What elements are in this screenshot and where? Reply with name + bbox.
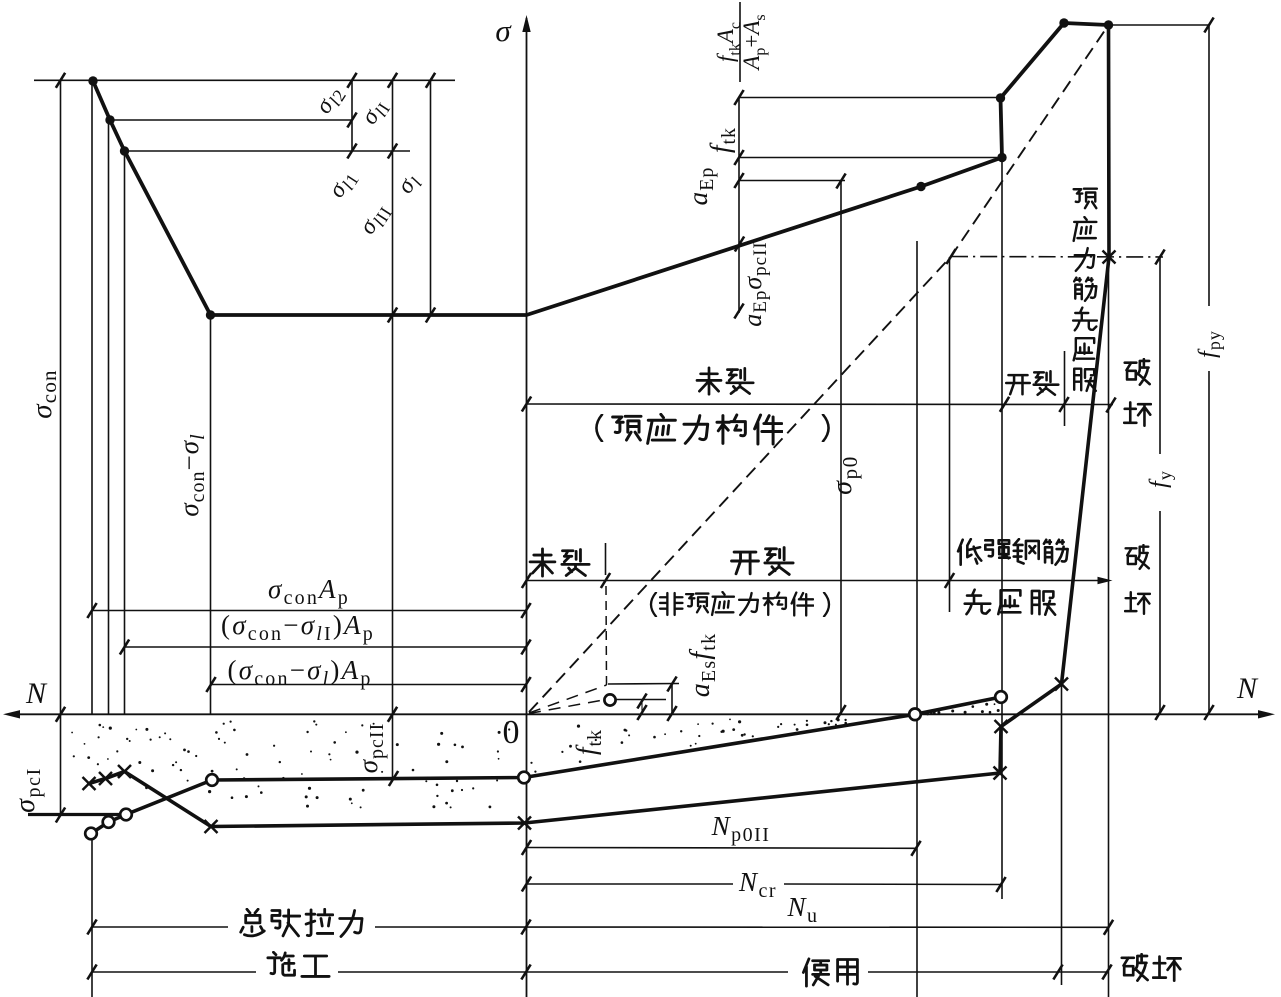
dimension row construction / service	[92, 971, 1108, 973]
svg-text:Ap+As: Ap+As	[739, 14, 768, 71]
svg-text:aEsftk: aEsftk	[685, 633, 719, 698]
svg-text:Np0II: Np0II	[711, 811, 771, 845]
uncracked/cracked boundary line non-prestressed row	[527, 577, 1113, 585]
sigma_lI label	[356, 94, 395, 131]
svg-text:aEpσpcII: aEpσpcII	[738, 241, 771, 327]
svg-text:0: 0	[503, 714, 520, 751]
svg-text:fy: fy	[1146, 470, 1176, 488]
svg-text:σlII: σlII	[354, 198, 396, 241]
ticks sigma_con axis crossing	[56, 707, 65, 823]
ticks dashdot	[946, 249, 1164, 265]
ticks y582 row	[522, 573, 954, 588]
level line after first loss	[110, 119, 352, 121]
svg-text:σpcII: σpcII	[353, 723, 387, 774]
sigma axis (vertical)	[522, 15, 530, 997]
curve concrete stress with circle markers	[91, 697, 1001, 834]
ticks a_Es dim	[667, 677, 676, 722]
drop line from point 4	[210, 315, 212, 714]
dimension row total tension / N_u	[92, 926, 1109, 928]
a_Es f_tk label	[685, 633, 719, 698]
top right connector line	[1109, 24, 1210, 26]
vertical line x1108 failure boundary	[1108, 25, 1110, 997]
dashed fan line upper	[529, 685, 607, 713]
ticks f_py ends	[1204, 18, 1213, 721]
label total tension force	[241, 909, 362, 936]
label kailie prestressed row	[1006, 371, 1058, 395]
sigma_p0 level line	[739, 180, 845, 182]
label (prestressed member)	[596, 414, 828, 444]
svg-text:σcon: σcon	[26, 369, 61, 418]
sigma_l label	[392, 168, 427, 200]
dimension row sigma_con Ap	[92, 610, 526, 612]
label low strength steel	[958, 539, 1068, 565]
label weilie prestressed row	[697, 368, 753, 394]
vertical line x917	[916, 241, 918, 997]
ticks N_cr row	[522, 877, 1006, 893]
x markers	[83, 251, 1116, 834]
ticks top loss dims	[56, 73, 435, 323]
label pohuai column prestressed	[1124, 359, 1151, 426]
uncracked/cracked boundary line prestressed row	[527, 403, 1114, 406]
circle markers	[85, 691, 1007, 839]
dimension row (sigma_con - sigma_l)Ap	[211, 684, 526, 686]
label yields first	[965, 590, 1055, 615]
svg-text:ftk: ftk	[571, 729, 605, 755]
label pohuai column non-prestressed	[1125, 545, 1150, 614]
svg-text:σl: σl	[392, 168, 427, 200]
f_tk jump label	[705, 127, 739, 153]
dashed vertical x608	[605, 586, 608, 685]
a_Ep label	[683, 167, 717, 206]
svg-text:ftk: ftk	[705, 127, 739, 153]
dimension row N_p0II	[527, 847, 917, 850]
sigma_pcI label	[10, 767, 44, 813]
circle marker construction point	[604, 694, 615, 705]
ticks y404 row	[522, 397, 1116, 413]
vertical line x1062	[1061, 684, 1063, 985]
ticks sigma_pcII dim	[388, 707, 398, 786]
svg-text:σcon−σl: σcon−σl	[174, 433, 208, 516]
dashed diagonal sigma_p0 line	[529, 25, 1109, 712]
a_Es f_tk dimension vertical	[671, 684, 673, 715]
curve steel stress with x markers	[89, 25, 1109, 827]
svg-text:N: N	[1236, 672, 1259, 705]
sigma_con label	[26, 369, 61, 418]
tick f_y end	[1155, 705, 1164, 720]
svg-text:aEp: aEp	[683, 167, 717, 206]
svg-text:σp0: σp0	[827, 455, 861, 495]
dimension line sigma_l2 vertical	[351, 80, 353, 151]
divider weilie/kailie row2	[605, 543, 607, 575]
drop line from point 1	[91, 81, 93, 714]
sigma_lII label	[354, 198, 396, 241]
vertical line x1002	[1001, 158, 1003, 900]
a_Ep sigma_pcII label	[738, 241, 771, 327]
top level f_tk Ac/(Ap+As)	[739, 97, 1000, 99]
svg-text:fpy: fpy	[1195, 330, 1225, 358]
ticks N_p0II row	[522, 840, 921, 856]
label construction	[268, 952, 329, 976]
svg-text:N: N	[25, 677, 48, 710]
label service	[803, 959, 857, 986]
vertical line x950	[949, 257, 951, 612]
sigma_con top level line	[34, 79, 455, 81]
dimension row N_cr	[527, 883, 1002, 886]
drop line from point 2	[108, 120, 110, 714]
level line cracking jump bottom	[739, 157, 1002, 159]
ticks row sigma_con Ap	[87, 603, 530, 618]
divider kailie row1	[1064, 351, 1066, 426]
sigma_p0 label	[827, 455, 861, 495]
f_py label	[1195, 330, 1225, 358]
sigma_con minus sigma_l label	[174, 433, 208, 516]
f_y dimension vertical	[1159, 257, 1161, 714]
ticks f_tk small dim	[637, 694, 646, 721]
f_y label	[1146, 470, 1176, 488]
label prestressing steel yields first column	[1073, 189, 1097, 391]
sigma_pcI level line	[28, 813, 120, 816]
sigma_l2 label	[310, 80, 350, 120]
ticks N_u row	[87, 920, 1113, 935]
label pohuai bottom	[1122, 954, 1181, 980]
f_tk small dimension vertical	[641, 701, 643, 713]
label weilie non-prestressed row	[530, 549, 589, 576]
dimension line sigma_con vertical	[60, 80, 62, 815]
svg-text:Nu: Nu	[786, 892, 818, 926]
svg-text:(σcon−σlI)Ap: (σcon−σlI)Ap	[221, 610, 375, 644]
extension line y699 at circle	[616, 699, 666, 701]
ticks row sigma_con-lI Ap	[120, 640, 531, 655]
extension line y684 right of axis	[608, 683, 679, 686]
dimension line sigma_lI vertical	[392, 80, 394, 777]
sigma_pcII label	[353, 723, 387, 774]
sigma_p0 dimension vertical	[840, 181, 842, 714]
svg-text:Ncr: Ncr	[738, 867, 777, 901]
level line after sigma_lI	[125, 150, 411, 152]
dimension line sigma_l vertical	[430, 80, 432, 315]
curve markers dots	[88, 18, 1113, 319]
dimension row (sigma_con - sigma_lI)Ap	[125, 646, 527, 648]
curve tendon stress (prestressed member)	[93, 23, 1109, 315]
svg-text:σlI: σlI	[356, 94, 395, 131]
ticks sigma_p0 dim	[836, 174, 845, 721]
ticks row sigma_con-l Ap	[206, 677, 530, 692]
dash-dot line f_y level	[951, 256, 1163, 259]
fraction f_tk Ac over Ap+As label	[713, 2, 769, 82]
svg-text:σpcI: σpcI	[10, 767, 44, 813]
f_py dimension vertical	[1208, 25, 1210, 714]
ticks x739 dim	[734, 90, 744, 319]
dimension line x739 vertical	[738, 98, 740, 314]
label (non-prestressed member)	[651, 592, 829, 616]
svg-text:σconAp: σconAp	[268, 574, 350, 608]
N axis (horizontal)	[3, 710, 1275, 718]
svg-text:(σcon−σl)Ap: (σcon−σl)Ap	[227, 655, 372, 689]
svg-text:σ: σ	[495, 13, 512, 48]
label kailie non-prestressed row	[732, 548, 794, 575]
stipple dots band	[71, 703, 1000, 809]
sigma_l1 label	[323, 164, 363, 204]
drop line from point 3	[124, 151, 126, 714]
ticks bottom row	[87, 965, 1111, 980]
dashed fan line lower	[529, 700, 603, 714]
drop line x92 lower part	[91, 837, 93, 997]
svg-text:σl2: σl2	[310, 80, 350, 120]
f_tk small label	[571, 729, 605, 755]
svg-text:σl1: σl1	[323, 164, 363, 204]
